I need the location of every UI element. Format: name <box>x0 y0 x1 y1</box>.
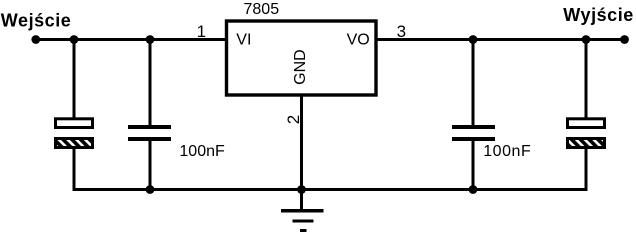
svg-text:100nF: 100nF <box>483 143 531 160</box>
wire input rail <box>36 38 227 41</box>
node junction F <box>297 185 306 194</box>
node junction G <box>469 185 478 194</box>
node junction B <box>146 35 155 44</box>
svg-text:100nF: 100nF <box>179 143 225 160</box>
wire C1 bottom lead <box>73 147 76 191</box>
node junction C <box>469 35 478 44</box>
capacitor C1 electrolytic hatched plate <box>56 139 93 148</box>
capacitor C1 electrolytic top plate <box>56 119 93 128</box>
ground <box>281 189 324 231</box>
node input terminal <box>31 35 40 44</box>
capacitor C3 100nF plates <box>452 125 495 129</box>
wire output rail <box>377 38 625 41</box>
svg-text:7805: 7805 <box>244 1 280 18</box>
wire C1 top lead <box>73 38 76 119</box>
wire C2 bottom lead <box>149 140 152 191</box>
node junction E <box>146 185 155 194</box>
svg-text:Wyjście: Wyjście <box>563 5 634 25</box>
wire C3 bottom lead <box>472 140 475 191</box>
svg-text:Wejście: Wejście <box>1 11 72 31</box>
capacitor C4 electrolytic top plate <box>568 119 605 128</box>
wire C4 bottom lead <box>585 147 588 191</box>
capacitor C2 100nF plates <box>128 125 171 129</box>
op-amp U1 regulator 7805 body <box>227 21 377 95</box>
wire C3 top lead <box>472 38 475 126</box>
wire C4 top lead <box>585 38 588 119</box>
svg-text:VI: VI <box>236 32 251 49</box>
svg-text:VO: VO <box>347 32 370 49</box>
svg-text:1: 1 <box>197 22 206 41</box>
wire GND pin stub <box>300 95 303 191</box>
wire C2 top lead <box>149 38 152 126</box>
capacitor C4 electrolytic hatched plate <box>568 139 605 148</box>
node output terminal <box>620 35 629 44</box>
wire bottom ground rail <box>74 147 586 190</box>
svg-text:GND: GND <box>292 49 309 85</box>
node junction D <box>582 35 591 44</box>
node junction A <box>70 35 79 44</box>
svg-text:3: 3 <box>397 22 406 41</box>
svg-text:2: 2 <box>284 115 303 124</box>
